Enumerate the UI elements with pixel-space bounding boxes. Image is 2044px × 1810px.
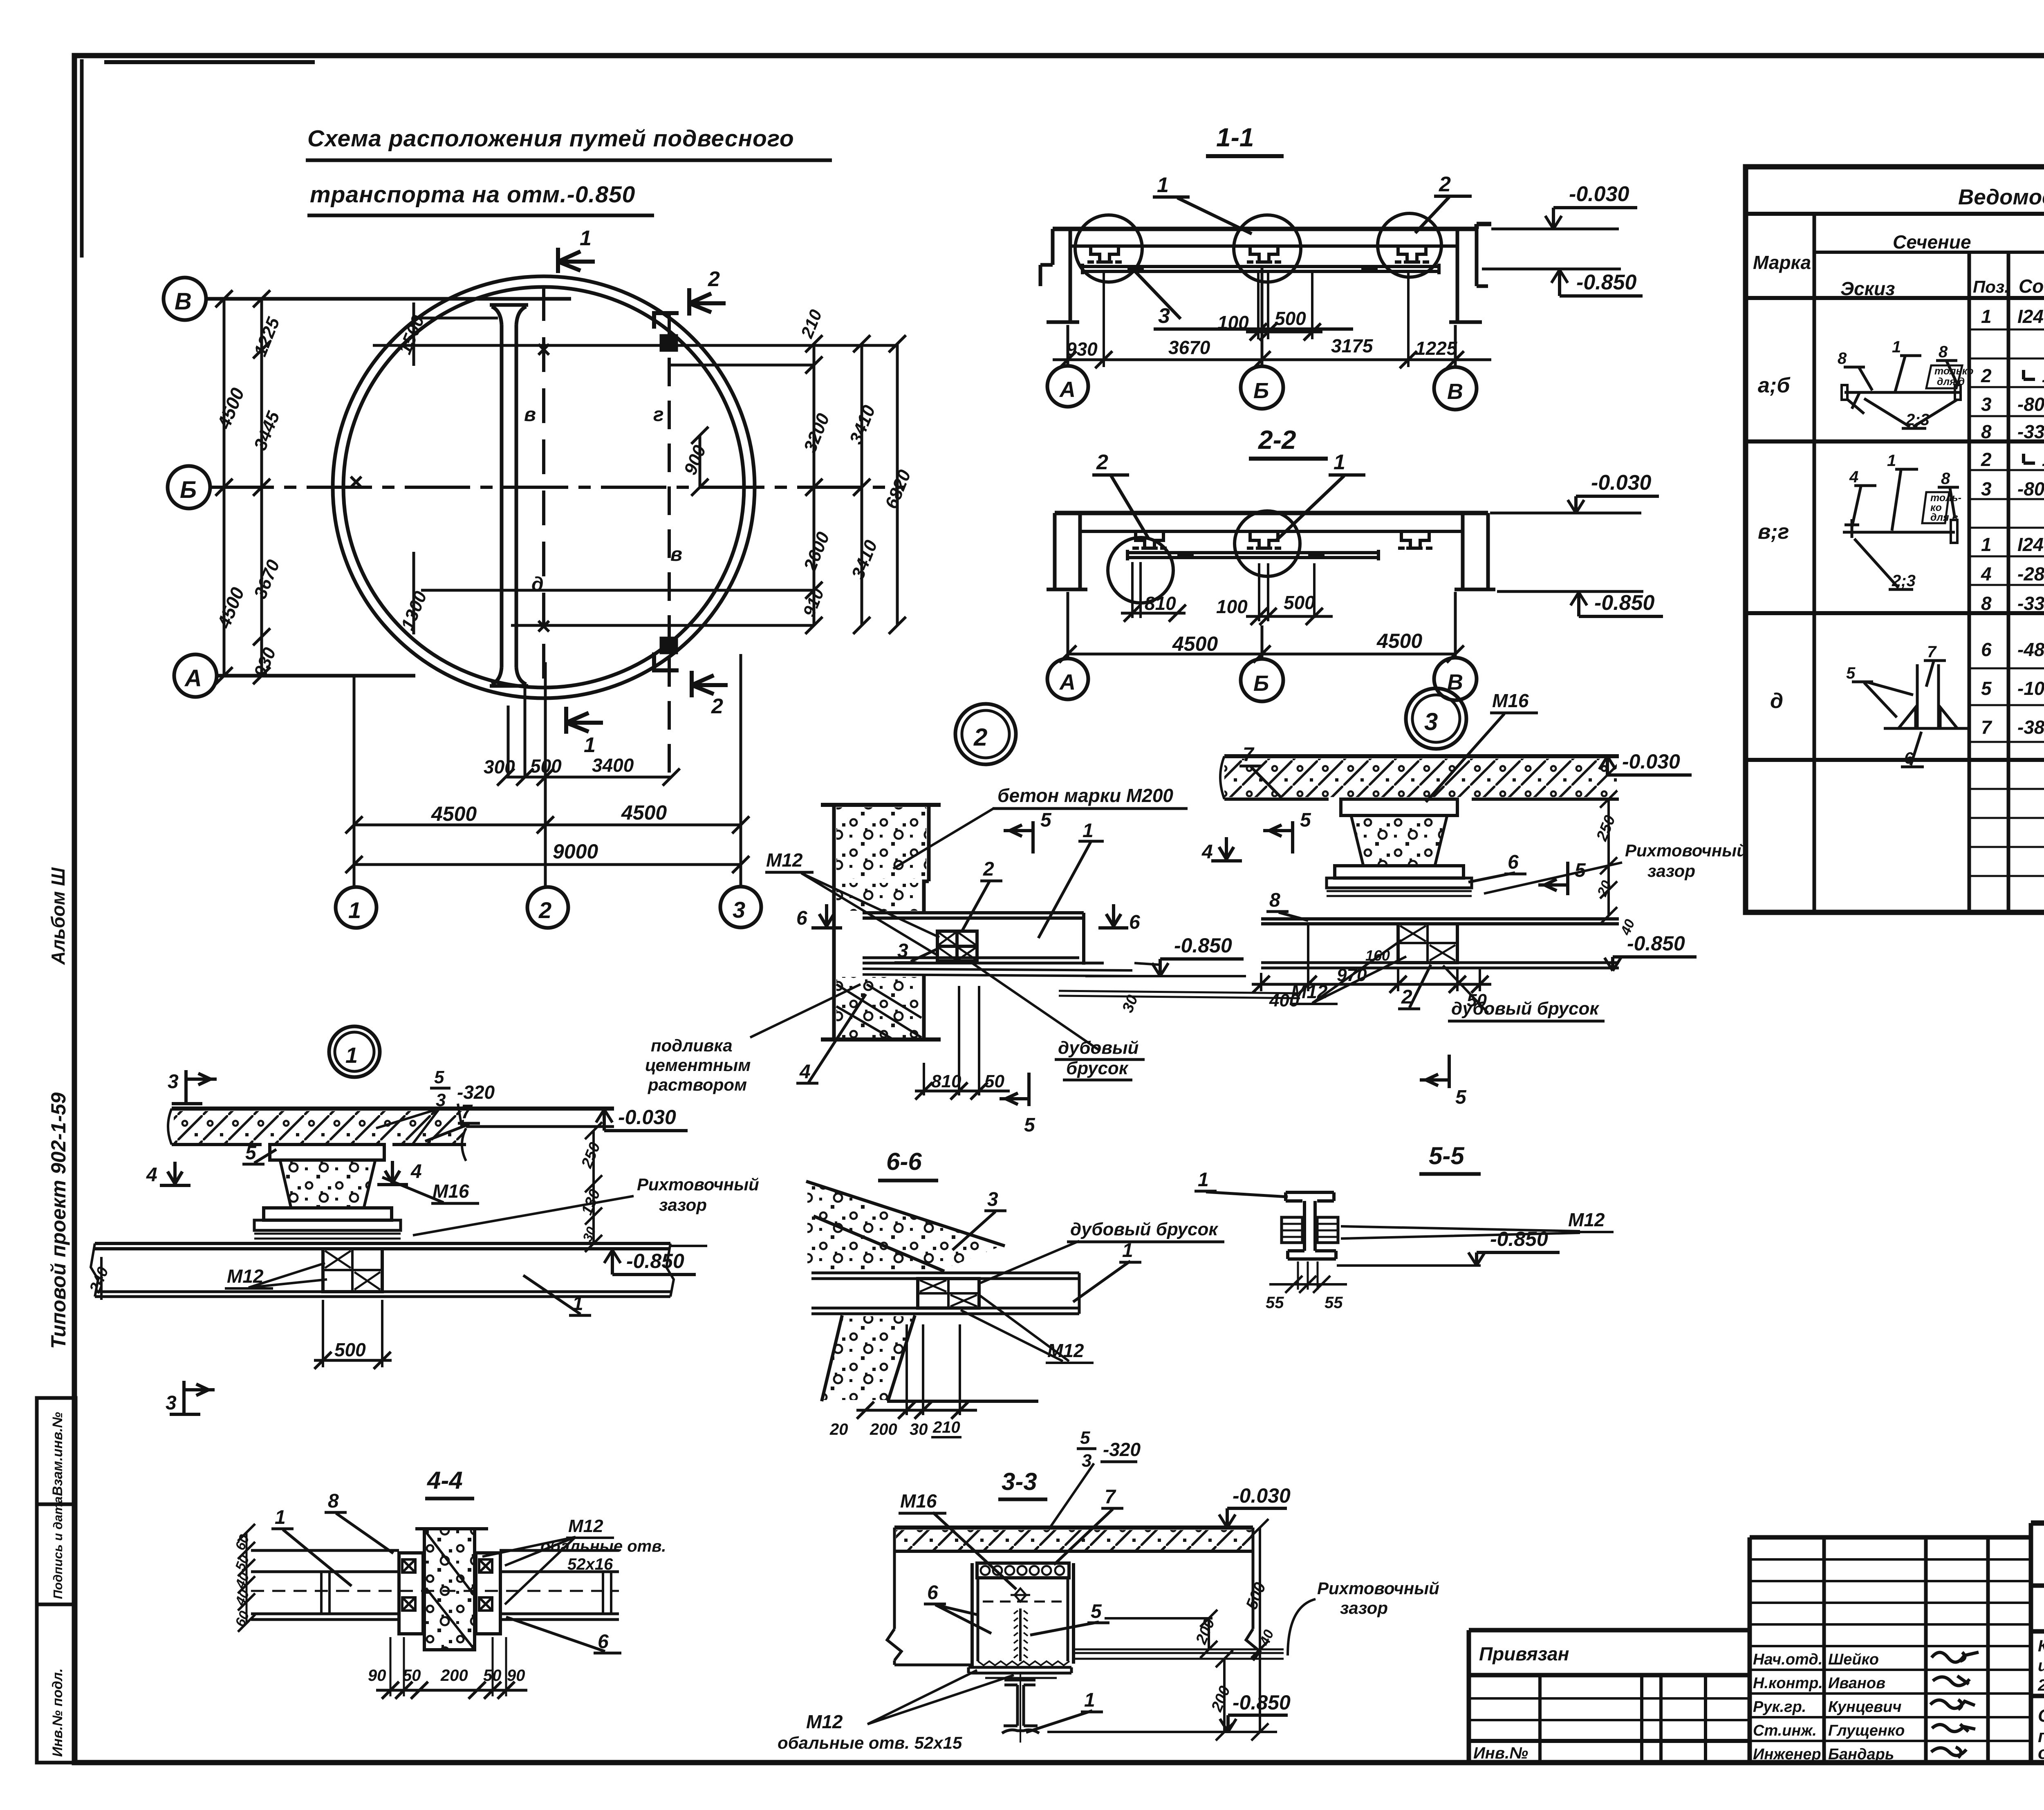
svg-text:4500: 4500 (431, 802, 477, 825)
svg-text:8: 8 (1941, 470, 1950, 488)
svg-text:500: 500 (334, 1339, 366, 1360)
svg-text:100х8: 100х8 (2042, 365, 2044, 386)
svg-text:810: 810 (931, 1071, 961, 1091)
svg-text:3445: 3445 (250, 408, 284, 453)
svg-text:210: 210 (932, 1418, 960, 1436)
svg-text:1: 1 (1083, 820, 1094, 842)
svg-text:4: 4 (146, 1164, 157, 1186)
svg-text:6: 6 (1508, 851, 1519, 873)
svg-text:-330х10: -330х10 (2017, 593, 2044, 614)
svg-text:90: 90 (507, 1667, 525, 1685)
svg-text:Рук.гр.: Рук.гр. (1753, 1698, 1806, 1716)
svg-text:90: 90 (368, 1667, 386, 1685)
svg-text:Привязан: Привязан (1479, 1643, 1569, 1664)
svg-text:55: 55 (1325, 1294, 1343, 1312)
svg-text:500: 500 (530, 755, 562, 777)
svg-text:зазор: зазор (1340, 1598, 1388, 1617)
svg-text:3: 3 (733, 897, 745, 923)
svg-text:5: 5 (434, 1067, 444, 1087)
svg-text:55: 55 (1266, 1294, 1284, 1312)
svg-text:3: 3 (166, 1392, 177, 1414)
svg-text:только: только (1934, 365, 1974, 377)
svg-text:5: 5 (1455, 1086, 1467, 1108)
svg-text:200: 200 (1208, 1684, 1234, 1714)
svg-text:-0.850: -0.850 (626, 1250, 684, 1272)
svg-text:бетон марки М200: бетон марки М200 (997, 785, 1173, 806)
svg-text:50: 50 (232, 1553, 252, 1573)
svg-text:М16: М16 (900, 1490, 937, 1512)
svg-text:4: 4 (410, 1161, 422, 1183)
svg-text:7: 7 (461, 1101, 473, 1123)
svg-text:1: 1 (1892, 338, 1901, 356)
svg-text:М16: М16 (1492, 690, 1529, 711)
svg-text:I24Н: I24Н (2017, 534, 2044, 555)
svg-text:-0.850: -0.850 (1490, 1228, 1548, 1250)
svg-text:4500: 4500 (621, 801, 667, 824)
svg-text:50: 50 (483, 1667, 502, 1685)
svg-text:20: 20 (829, 1420, 848, 1438)
svg-text:г: г (653, 404, 664, 426)
svg-text:7: 7 (1927, 643, 1937, 661)
svg-text:-0.850: -0.850 (1594, 591, 1655, 615)
svg-text:-380х10: -380х10 (2017, 717, 2044, 738)
svg-text:5: 5 (1091, 1601, 1102, 1622)
svg-text:970: 970 (1337, 965, 1367, 985)
svg-text:250: 250 (578, 1140, 604, 1171)
svg-text:-80х6: -80х6 (2017, 394, 2044, 415)
svg-text:дубовый брусок: дубовый брусок (1070, 1219, 1219, 1239)
svg-text:5-5: 5-5 (1429, 1142, 1465, 1169)
svg-text:3: 3 (168, 1071, 179, 1093)
svg-text:Поз.: Поз. (1973, 277, 2009, 296)
svg-text:7: 7 (1981, 717, 1992, 738)
svg-text:Шейко: Шейко (1828, 1651, 1879, 1668)
svg-text:дубовый: дубовый (1058, 1038, 1139, 1058)
svg-text:Глущенко: Глущенко (1828, 1722, 1905, 1739)
svg-text:Б: Б (180, 477, 197, 503)
svg-text:-0.030: -0.030 (1622, 750, 1680, 773)
svg-text:М16: М16 (433, 1181, 469, 1202)
svg-text:2: 2 (708, 267, 720, 291)
svg-text:раствором: раствором (648, 1075, 747, 1094)
svg-text:3-3: 3-3 (1002, 1468, 1037, 1495)
svg-text:1: 1 (348, 897, 361, 923)
svg-text:ция производительностью: ция производительностью (2038, 1657, 2044, 1675)
svg-text:3200: 3200 (800, 410, 834, 455)
svg-text:50: 50 (984, 1071, 1004, 1091)
svg-text:3410: 3410 (846, 402, 879, 447)
svg-text:Инженер: Инженер (1753, 1746, 1821, 1763)
svg-text:2: 2 (973, 724, 987, 751)
svg-text:100: 100 (1216, 596, 1248, 617)
svg-text:400: 400 (1269, 990, 1300, 1010)
svg-text:5: 5 (1981, 678, 1992, 699)
svg-text:60: 60 (232, 1532, 252, 1552)
svg-text:2;3: 2;3 (1892, 572, 1916, 590)
svg-text:Рихтовочный: Рихтовочный (1625, 841, 1747, 860)
svg-text:М12: М12 (806, 1711, 843, 1732)
svg-text:А: А (1059, 377, 1076, 402)
svg-text:2-2: 2-2 (1258, 425, 1296, 455)
svg-text:А: А (1059, 670, 1076, 694)
svg-text:100: 100 (1217, 312, 1249, 333)
svg-text:3: 3 (1981, 478, 1992, 500)
svg-text:-0.030: -0.030 (1233, 1484, 1291, 1507)
svg-text:1: 1 (1198, 1169, 1209, 1191)
svg-text:в;г: в;г (1758, 520, 1789, 544)
svg-text:В: В (1447, 379, 1463, 404)
svg-text:5: 5 (1846, 664, 1856, 682)
svg-text:1: 1 (1157, 173, 1169, 197)
svg-text:I24Н: I24Н (2017, 306, 2044, 327)
svg-text:цементным: цементным (645, 1055, 751, 1075)
svg-text:Взам.инв.№: Взам.инв.№ (50, 1412, 65, 1496)
svg-text:300: 300 (484, 756, 515, 777)
svg-text:9000: 9000 (553, 840, 598, 863)
svg-text:-480х10: -480х10 (2017, 639, 2044, 660)
svg-text:7: 7 (1105, 1486, 1116, 1508)
svg-text:3670: 3670 (1168, 337, 1210, 358)
svg-text:6820: 6820 (881, 467, 915, 512)
svg-text:2: 2 (1439, 172, 1451, 196)
svg-text:Типовой проект 902-1-59: Типовой проект 902-1-59 (47, 1092, 70, 1349)
svg-text:Ведомость элементов: Ведомость элементов (1958, 185, 2044, 209)
svg-text:8: 8 (1939, 343, 1948, 361)
svg-text:Альбом Ш: Альбом Ш (47, 867, 69, 965)
svg-text:8: 8 (1269, 889, 1280, 911)
svg-text:Схема расположения путей подве: Схема расположения путей подвесного (307, 125, 794, 152)
svg-text:8: 8 (328, 1490, 339, 1512)
svg-text:М12: М12 (568, 1516, 603, 1536)
svg-text:Ст.инж.: Ст.инж. (1753, 1722, 1817, 1739)
svg-text:8: 8 (1838, 349, 1847, 367)
svg-text:1: 1 (580, 226, 592, 250)
svg-text:М12: М12 (1568, 1209, 1605, 1230)
svg-text:3175: 3175 (1331, 335, 1374, 356)
svg-text:250: 250 (1593, 813, 1619, 844)
svg-text:40: 40 (232, 1588, 253, 1608)
svg-text:6: 6 (796, 907, 807, 929)
svg-text:2: 2 (1981, 365, 1992, 386)
svg-text:500: 500 (1243, 1580, 1270, 1612)
svg-text:3: 3 (987, 1189, 998, 1210)
svg-text:50: 50 (1467, 990, 1487, 1010)
svg-text:-320: -320 (457, 1082, 495, 1103)
svg-text:-0.030: -0.030 (1591, 471, 1652, 495)
svg-text:А: А (184, 665, 202, 692)
svg-text:930: 930 (1066, 338, 1098, 360)
svg-text:Подпись и дата: Подпись и дата (51, 1496, 65, 1599)
svg-text:Марка: Марка (1753, 252, 1811, 273)
svg-text:1: 1 (1084, 1689, 1095, 1711)
svg-text:отм.-0.850: отм.-0.850 (2038, 1743, 2044, 1763)
svg-text:Эскиз: Эскиз (1840, 278, 1895, 299)
svg-text:-0.850: -0.850 (1233, 1691, 1291, 1714)
svg-text:4: 4 (1981, 563, 1992, 585)
svg-text:40: 40 (232, 1570, 253, 1591)
svg-text:1-1: 1-1 (1216, 123, 1254, 152)
svg-text:-320: -320 (1103, 1439, 1141, 1460)
svg-text:д: д (1770, 689, 1783, 713)
svg-text:Канализационная насосная стан-: Канализационная насосная стан- (2038, 1637, 2044, 1655)
svg-text:2: 2 (1096, 450, 1108, 474)
svg-text:Иванов: Иванов (1828, 1675, 1885, 1692)
svg-text:4500: 4500 (213, 385, 249, 432)
svg-text:1225: 1225 (250, 314, 284, 359)
svg-text:200: 200 (440, 1667, 468, 1685)
svg-text:4500: 4500 (213, 584, 249, 632)
svg-text:1: 1 (1981, 534, 1992, 555)
svg-text:-80х6: -80х6 (2017, 478, 2044, 500)
svg-text:брусок: брусок (1066, 1058, 1129, 1078)
svg-text:обальные отв. 52х15: обальные отв. 52х15 (778, 1733, 962, 1752)
svg-text:30: 30 (910, 1420, 928, 1438)
svg-text:-100х10: -100х10 (2017, 678, 2044, 699)
svg-text:-0.850: -0.850 (1627, 932, 1685, 955)
svg-text:2: 2 (1981, 449, 1992, 470)
svg-text:130: 130 (578, 1187, 604, 1218)
svg-text:1225: 1225 (1415, 338, 1458, 359)
svg-text:В: В (175, 288, 192, 315)
svg-text:6: 6 (1904, 749, 1914, 767)
svg-text:200: 200 (870, 1420, 897, 1438)
svg-text:3: 3 (897, 940, 908, 962)
svg-text:7: 7 (1243, 744, 1255, 766)
svg-text:5: 5 (1080, 1428, 1090, 1448)
svg-text:900: 900 (680, 442, 710, 478)
svg-text:3410: 3410 (848, 537, 881, 582)
svg-text:1: 1 (1334, 450, 1345, 474)
svg-text:Нач.отд.: Нач.отд. (1753, 1651, 1822, 1668)
svg-text:Инв.№ подл.: Инв.№ подл. (50, 1668, 65, 1757)
svg-text:подливка: подливка (651, 1036, 733, 1055)
svg-text:6-6: 6-6 (886, 1148, 922, 1175)
svg-text:1: 1 (1981, 306, 1992, 327)
svg-text:1: 1 (584, 733, 596, 757)
svg-text:6: 6 (1129, 912, 1140, 933)
svg-text:Н.контр.: Н.контр. (1753, 1675, 1823, 1692)
svg-text:4: 4 (1201, 841, 1213, 863)
svg-text:1: 1 (1887, 452, 1896, 470)
svg-text:50: 50 (403, 1667, 421, 1685)
svg-text:-0.850: -0.850 (1576, 271, 1637, 294)
svg-text:500: 500 (1275, 308, 1306, 329)
svg-text:1: 1 (345, 1043, 358, 1068)
svg-text:-0.850: -0.850 (1174, 934, 1232, 957)
svg-text:Сечение: Сечение (1893, 231, 1971, 253)
svg-text:Кунцевич: Кунцевич (1828, 1698, 1902, 1716)
svg-text:а;б: а;б (1758, 374, 1791, 397)
svg-text:4500: 4500 (1376, 629, 1422, 652)
svg-text:Рихтовочный: Рихтовочный (637, 1175, 759, 1194)
svg-text:транспорта на отм.-0.850: транспорта на отм.-0.850 (310, 181, 635, 208)
svg-text:8: 8 (1981, 421, 1992, 442)
svg-text:3670: 3670 (250, 557, 284, 602)
svg-text:60: 60 (232, 1609, 252, 1629)
svg-text:-280х10: -280х10 (2017, 563, 2044, 585)
svg-text:-0.030: -0.030 (618, 1106, 676, 1129)
svg-text:2: 2 (711, 694, 723, 718)
svg-text:Бандарь: Бандарь (1828, 1746, 1894, 1763)
svg-text:3: 3 (1424, 708, 1438, 735)
svg-text:810: 810 (1145, 593, 1176, 614)
svg-text:1300: 1300 (397, 588, 431, 633)
svg-text:100х8: 100х8 (2042, 449, 2044, 470)
svg-text:8: 8 (1981, 593, 1992, 614)
svg-text:д: д (531, 573, 544, 595)
svg-text:Схема расположения путей: Схема расположения путей (2038, 1706, 2044, 1726)
svg-text:5: 5 (245, 1142, 257, 1164)
svg-text:3400: 3400 (592, 755, 634, 776)
svg-text:2: 2 (538, 897, 551, 923)
svg-text:2;3: 2;3 (1905, 411, 1930, 429)
svg-text:Б: Б (1253, 671, 1269, 696)
svg-text:4: 4 (1849, 468, 1858, 486)
svg-text:в: в (670, 544, 682, 565)
svg-text:Состав: Состав (2019, 276, 2044, 297)
svg-text:Рихтовочный: Рихтовочный (1317, 1579, 1439, 1598)
svg-text:52х16: 52х16 (567, 1555, 613, 1573)
svg-text:230-832 м³/час напором 7.6-46м: 230-832 м³/час напором 7.6-46м (2037, 1676, 2044, 1694)
svg-text:6: 6 (1981, 639, 1992, 660)
svg-text:6: 6 (927, 1582, 938, 1604)
svg-text:20: 20 (1594, 878, 1615, 899)
svg-text:1: 1 (1122, 1240, 1133, 1261)
svg-text:2600: 2600 (800, 529, 834, 574)
svg-text:5: 5 (1300, 809, 1311, 831)
svg-text:для в: для в (1930, 512, 1958, 523)
svg-text:500: 500 (1284, 592, 1315, 613)
svg-text:5: 5 (1040, 809, 1052, 831)
svg-text:зазор: зазор (1647, 861, 1695, 880)
svg-text:зазор: зазор (659, 1195, 707, 1214)
svg-text:в: в (524, 404, 536, 426)
svg-text:160: 160 (1365, 947, 1390, 964)
svg-text:4-4: 4-4 (427, 1467, 463, 1494)
svg-text:-0.030: -0.030 (1569, 182, 1629, 206)
svg-text:Б: Б (1253, 379, 1269, 403)
svg-text:1: 1 (275, 1507, 286, 1528)
svg-text:-330х10: -330х10 (2017, 421, 2044, 442)
svg-text:2: 2 (983, 858, 994, 880)
svg-text:4500: 4500 (1172, 632, 1218, 655)
svg-text:для д: для д (1937, 376, 1965, 388)
svg-text:3: 3 (1981, 394, 1992, 415)
svg-text:М12: М12 (766, 849, 803, 871)
svg-text:5: 5 (1024, 1114, 1035, 1136)
svg-text:Инв.№: Инв.№ (1473, 1744, 1528, 1762)
